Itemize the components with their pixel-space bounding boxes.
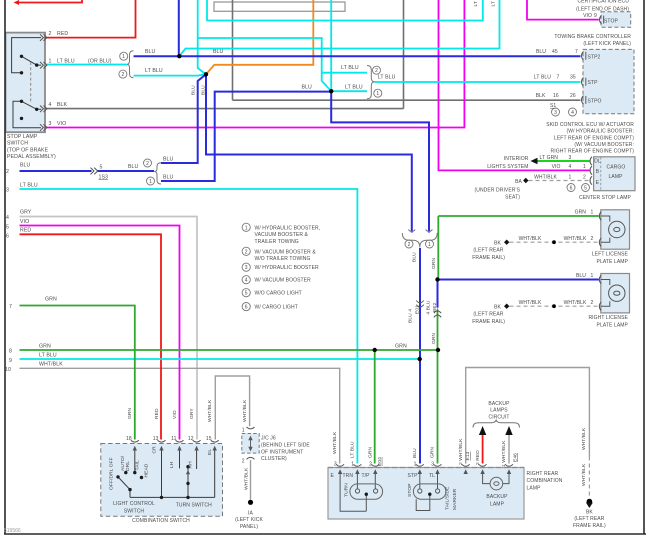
svg-text:TAIL/SIDE: TAIL/SIDE	[445, 486, 451, 510]
svg-text:DL: DL	[594, 158, 601, 164]
svg-text:2: 2	[146, 161, 149, 167]
svg-text:STOP: STOP	[604, 19, 618, 25]
svg-text:STOP: STOP	[407, 483, 413, 497]
svg-text:GRN: GRN	[395, 343, 407, 349]
svg-text:BLK: BLK	[57, 102, 68, 108]
svg-text:LT BLU: LT BLU	[39, 352, 57, 358]
svg-text:VIO: VIO	[172, 410, 178, 419]
svg-text:BK: BK	[586, 509, 593, 515]
svg-text:CARGO: CARGO	[607, 164, 626, 170]
svg-text:7: 7	[9, 304, 12, 310]
svg-text:6: 6	[570, 186, 573, 192]
svg-text:26: 26	[570, 93, 576, 99]
svg-text:5: 5	[584, 186, 587, 192]
svg-text:WHT/BLK: WHT/BLK	[332, 431, 338, 454]
svg-text:1: 1	[122, 54, 125, 60]
svg-text:T/P: T/P	[362, 473, 371, 479]
svg-text:BLU: BLU	[576, 273, 586, 279]
svg-text:LT BLU: LT BLU	[341, 65, 359, 71]
svg-text:15: 15	[206, 436, 212, 442]
svg-text:BLU: BLU	[412, 448, 418, 458]
svg-text:BLU: BLU	[145, 49, 156, 55]
svg-text:VIO: VIO	[583, 13, 592, 19]
svg-text:B: B	[596, 169, 600, 175]
svg-text:BE2: BE2	[432, 302, 438, 312]
svg-text:35: 35	[570, 75, 576, 81]
svg-text:TURN: TURN	[343, 483, 349, 497]
svg-text:6: 6	[245, 305, 248, 311]
svg-text:STP: STP	[588, 80, 599, 86]
svg-text:2: 2	[49, 31, 52, 37]
svg-text:GRN: GRN	[430, 447, 436, 458]
svg-text:LH: LH	[169, 461, 175, 468]
svg-text:STP2: STP2	[588, 54, 601, 60]
svg-text:TL: TL	[429, 473, 435, 479]
svg-text:FRAME RAIL): FRAME RAIL)	[472, 319, 505, 325]
svg-text:STPO: STPO	[588, 98, 602, 104]
svg-text:2: 2	[591, 300, 594, 306]
svg-text:1S3: 1S3	[99, 174, 109, 180]
svg-text:CR: CR	[152, 446, 158, 454]
svg-text:8: 8	[9, 349, 12, 355]
svg-text:OFF/DRL OFF: OFF/DRL OFF	[109, 457, 115, 490]
svg-text:PANEL): PANEL)	[240, 524, 259, 530]
svg-text:18: 18	[126, 436, 132, 442]
svg-text:GRY: GRY	[20, 210, 32, 216]
svg-text:E13: E13	[465, 451, 471, 460]
svg-text:BLU: BLU	[128, 164, 139, 170]
svg-text:BLU: BLU	[213, 49, 224, 55]
svg-text:LT GRN: LT GRN	[540, 155, 559, 161]
svg-text:1: 1	[414, 462, 417, 468]
svg-text:MARKER: MARKER	[452, 488, 458, 510]
svg-text:3: 3	[6, 188, 9, 194]
svg-text:4: 4	[49, 102, 52, 108]
svg-text:BLU: BLU	[302, 85, 313, 91]
svg-text:2: 2	[375, 68, 378, 74]
svg-text:1: 1	[591, 210, 594, 216]
svg-text:FRAME RAIL): FRAME RAIL)	[472, 255, 505, 261]
svg-text:WHT/BLK: WHT/BLK	[244, 467, 250, 490]
svg-text:WHT/BLK: WHT/BLK	[242, 399, 248, 422]
svg-text:5: 5	[6, 224, 9, 230]
svg-text:BLK: BLK	[536, 93, 546, 99]
svg-text:4: 4	[6, 215, 9, 221]
svg-text:(UNDER DRIVER'S: (UNDER DRIVER'S	[474, 188, 520, 194]
svg-text:2: 2	[583, 174, 586, 180]
svg-text:1: 1	[245, 225, 248, 231]
svg-text:1: 1	[351, 462, 354, 468]
svg-text:2 RED: 2 RED	[475, 450, 481, 465]
svg-text:VIO: VIO	[57, 121, 66, 127]
svg-text:1: 1	[49, 58, 52, 64]
svg-text:1: 1	[428, 242, 431, 248]
svg-text:W/ CARGO LIGHT: W/ CARGO LIGHT	[255, 305, 298, 311]
svg-text:(TOP OF BRAKE: (TOP OF BRAKE	[7, 147, 49, 153]
svg-text:BLU 4: BLU 4	[407, 309, 413, 323]
svg-text:10: 10	[5, 367, 11, 373]
svg-text:TURN SWITCH: TURN SWITCH	[176, 503, 212, 509]
svg-text:RED: RED	[20, 228, 31, 234]
svg-text:1: 1	[583, 164, 586, 170]
svg-text:GRN: GRN	[431, 258, 437, 269]
svg-text:BLU: BLU	[200, 85, 206, 95]
svg-text:VIO: VIO	[552, 164, 561, 170]
svg-text:SEAT): SEAT)	[505, 195, 520, 201]
svg-text:6: 6	[6, 233, 9, 239]
svg-text:2: 2	[591, 236, 594, 242]
svg-text:BACKUP: BACKUP	[488, 401, 510, 407]
svg-text:2: 2	[369, 462, 372, 468]
svg-text:LT BLU: LT BLU	[145, 68, 163, 74]
svg-text:(W/ HYDRAULIC BOOSTER:: (W/ HYDRAULIC BOOSTER:	[567, 129, 634, 135]
svg-text:BLU: BLU	[20, 163, 31, 169]
svg-text:CENTER STOP LAMP: CENTER STOP LAMP	[579, 195, 632, 201]
svg-text:E04: E04	[377, 457, 383, 466]
svg-text:INTERIOR: INTERIOR	[504, 156, 529, 162]
svg-text:RED: RED	[154, 408, 160, 419]
svg-text:7: 7	[557, 75, 560, 81]
svg-text:E46: E46	[512, 453, 518, 462]
svg-text:1: 1	[149, 179, 152, 185]
svg-text:RH: RH	[187, 461, 193, 469]
svg-text:11: 11	[171, 436, 177, 442]
svg-text:J/C J6: J/C J6	[261, 435, 276, 441]
svg-text:4: 4	[571, 110, 574, 116]
svg-text:7: 7	[575, 49, 578, 55]
svg-text:BK: BK	[494, 305, 501, 311]
svg-text:E: E	[331, 473, 335, 479]
svg-text:5: 5	[245, 291, 248, 297]
svg-text:W/O CARGO LIGHT: W/O CARGO LIGHT	[255, 291, 302, 297]
svg-text:TRAILER TOWING: TRAILER TOWING	[255, 239, 299, 245]
svg-text:2 WHT/BLK: 2 WHT/BLK	[458, 438, 464, 465]
svg-text:WHT/BLK: WHT/BLK	[564, 300, 587, 306]
svg-text:16: 16	[553, 93, 559, 99]
svg-text:4 BLU: 4 BLU	[425, 300, 431, 314]
svg-text:LEFT LICENSE: LEFT LICENSE	[592, 251, 629, 257]
svg-text:LAMP: LAMP	[490, 501, 505, 507]
svg-text:COMBINATION: COMBINATION	[527, 478, 563, 484]
svg-text:DRL: DRL	[125, 461, 131, 471]
svg-text:1: 1	[569, 174, 572, 180]
svg-text:(LEFT KICK: (LEFT KICK	[235, 517, 263, 523]
svg-text:STOP LAMP: STOP LAMP	[7, 134, 38, 140]
svg-text:45: 45	[552, 49, 558, 55]
svg-text:W/ HYDRAULIC BOOSTER,: W/ HYDRAULIC BOOSTER,	[255, 225, 321, 231]
svg-text:1 WHT/BLK: 1 WHT/BLK	[501, 440, 507, 467]
svg-text:COMBINATION SWITCH: COMBINATION SWITCH	[132, 518, 190, 524]
svg-text:LT BLU: LT BLU	[345, 85, 363, 91]
svg-text:PEDAL ASSEMBLY): PEDAL ASSEMBLY)	[7, 154, 56, 160]
svg-text:9: 9	[594, 13, 597, 19]
svg-text:RIGHT REAR OF ENGINE COMPT): RIGHT REAR OF ENGINE COMPT)	[551, 149, 635, 155]
svg-text:12: 12	[188, 436, 194, 442]
svg-text:LT BLU: LT BLU	[473, 0, 479, 7]
svg-text:LT BLU: LT BLU	[350, 441, 356, 458]
svg-text:GRN: GRN	[127, 408, 133, 419]
svg-text:(LEFT KICK PANEL): (LEFT KICK PANEL)	[583, 41, 631, 47]
svg-text:RIGHT REAR: RIGHT REAR	[527, 471, 559, 477]
svg-text:WHT/BLK: WHT/BLK	[39, 362, 63, 368]
svg-text:SWITCH: SWITCH	[124, 508, 145, 514]
svg-text:IA: IA	[248, 510, 253, 516]
svg-text:GRN: GRN	[45, 297, 57, 303]
svg-text:WHT/BLK: WHT/BLK	[581, 463, 587, 486]
svg-text:3: 3	[554, 110, 557, 116]
svg-text:3: 3	[569, 155, 572, 161]
svg-text:BLU: BLU	[163, 156, 174, 162]
svg-text:BLU: BLU	[191, 85, 197, 95]
svg-text:1: 1	[242, 428, 245, 434]
svg-text:(LEFT REAR: (LEFT REAR	[473, 248, 503, 254]
svg-text:W/ HYDRAULIC BOOSTER: W/ HYDRAULIC BOOSTER	[255, 265, 320, 271]
svg-text:LT BLU: LT BLU	[20, 182, 38, 188]
svg-text:S1: S1	[550, 103, 556, 109]
svg-text:2: 2	[6, 169, 9, 175]
svg-text:9: 9	[9, 358, 12, 364]
svg-text:BLU: BLU	[163, 174, 174, 180]
svg-text:(W/ VACUUM BOOSTER:: (W/ VACUUM BOOSTER:	[574, 142, 634, 148]
svg-text:VACUUM BOOSTER &: VACUUM BOOSTER &	[255, 232, 309, 238]
svg-text:PLATE LAMP: PLATE LAMP	[597, 259, 629, 265]
svg-text:PLATE LAMP: PLATE LAMP	[597, 323, 629, 329]
svg-text:LAMP: LAMP	[609, 174, 624, 180]
svg-text:4: 4	[569, 164, 572, 170]
svg-text:2: 2	[122, 72, 125, 78]
svg-text:FRAME RAIL): FRAME RAIL)	[573, 523, 606, 529]
svg-text:W/O TRAILER TOWING: W/O TRAILER TOWING	[255, 256, 311, 262]
svg-text:CLUSTER): CLUSTER)	[261, 456, 287, 462]
svg-text:STP: STP	[408, 473, 419, 479]
svg-text:519566: 519566	[4, 528, 21, 534]
svg-text:SWITCH: SWITCH	[7, 141, 28, 147]
svg-text:GRN: GRN	[368, 447, 374, 458]
svg-text:GRN: GRN	[431, 333, 437, 344]
svg-text:2: 2	[408, 242, 411, 248]
svg-text:TOWING BRAKE CONTROLLER: TOWING BRAKE CONTROLLER	[554, 34, 631, 40]
svg-text:3: 3	[431, 462, 434, 468]
svg-text:RIGHT LICENSE: RIGHT LICENSE	[588, 315, 628, 321]
svg-text:E: E	[596, 180, 600, 186]
svg-text:(BEHIND LEFT SIDE: (BEHIND LEFT SIDE	[261, 443, 310, 449]
svg-text:LT BLU: LT BLU	[378, 75, 396, 81]
svg-text:LIGHT CONTROL: LIGHT CONTROL	[113, 501, 155, 507]
svg-text:HEAD: HEAD	[144, 463, 150, 477]
svg-text:4: 4	[245, 278, 248, 284]
svg-text:WHT/BLK: WHT/BLK	[519, 300, 542, 306]
svg-text:BLU: BLU	[536, 49, 546, 55]
svg-text:BA: BA	[515, 179, 522, 185]
svg-text:CIRCUIT: CIRCUIT	[489, 415, 510, 421]
svg-text:2: 2	[242, 459, 245, 465]
svg-text:(OR BLU): (OR BLU)	[88, 58, 112, 64]
svg-text:LT BLU: LT BLU	[534, 75, 551, 81]
svg-text:(LEFT END OF DASH): (LEFT END OF DASH)	[576, 6, 629, 12]
svg-text:WHT/BLK: WHT/BLK	[207, 399, 213, 422]
svg-text:GRN: GRN	[575, 210, 587, 216]
svg-text:E01: E01	[414, 305, 420, 314]
svg-text:GRN: GRN	[39, 343, 51, 349]
svg-text:5: 5	[100, 165, 103, 171]
svg-text:VIO: VIO	[20, 219, 29, 225]
svg-text:LT BLU: LT BLU	[57, 58, 75, 64]
svg-text:(LEFT REAR: (LEFT REAR	[473, 312, 503, 318]
svg-text:OF INSTRUMENT: OF INSTRUMENT	[261, 449, 303, 455]
svg-text:W/ VACUUM BOOSTER &: W/ VACUUM BOOSTER &	[255, 249, 317, 255]
svg-text:2: 2	[245, 249, 248, 255]
svg-text:13: 13	[153, 436, 159, 442]
svg-text:3: 3	[245, 265, 248, 271]
svg-text:1: 1	[591, 273, 594, 279]
svg-text:3: 3	[49, 121, 52, 127]
svg-text:LAMPS: LAMPS	[490, 408, 508, 414]
svg-text:LAMP: LAMP	[527, 485, 542, 491]
svg-text:TRN: TRN	[343, 473, 354, 479]
svg-text:W/ VACUUM BOOSTER: W/ VACUUM BOOSTER	[255, 278, 312, 284]
svg-text:LT BLU: LT BLU	[490, 0, 496, 7]
svg-text:BACKUP: BACKUP	[486, 494, 508, 500]
svg-text:(LEFT REAR: (LEFT REAR	[574, 516, 604, 522]
svg-text:3: 3	[334, 462, 337, 468]
svg-text:WHT/BLK: WHT/BLK	[564, 236, 587, 242]
svg-text:BK: BK	[494, 241, 501, 247]
svg-text:SKID CONTROL ECU W/ ACTUATOR: SKID CONTROL ECU W/ ACTUATOR	[546, 122, 634, 128]
svg-text:WHT/BLK: WHT/BLK	[519, 236, 542, 242]
svg-text:TAIL: TAIL	[135, 460, 141, 470]
svg-text:RED: RED	[57, 31, 68, 37]
svg-text:EL: EL	[207, 449, 213, 455]
svg-text:LEFT REAR OF ENGINE COMPT): LEFT REAR OF ENGINE COMPT)	[554, 135, 634, 141]
svg-text:LIGHTS SYSTEM: LIGHTS SYSTEM	[487, 164, 528, 170]
svg-text:CERTIFICATION ECU: CERTIFICATION ECU	[577, 0, 629, 4]
svg-text:WHT/BLK: WHT/BLK	[581, 427, 587, 450]
svg-text:1: 1	[376, 91, 379, 97]
svg-text:GRY: GRY	[189, 408, 195, 419]
svg-text:BLU: BLU	[412, 252, 418, 262]
svg-text:WHT/BLK: WHT/BLK	[534, 174, 557, 180]
